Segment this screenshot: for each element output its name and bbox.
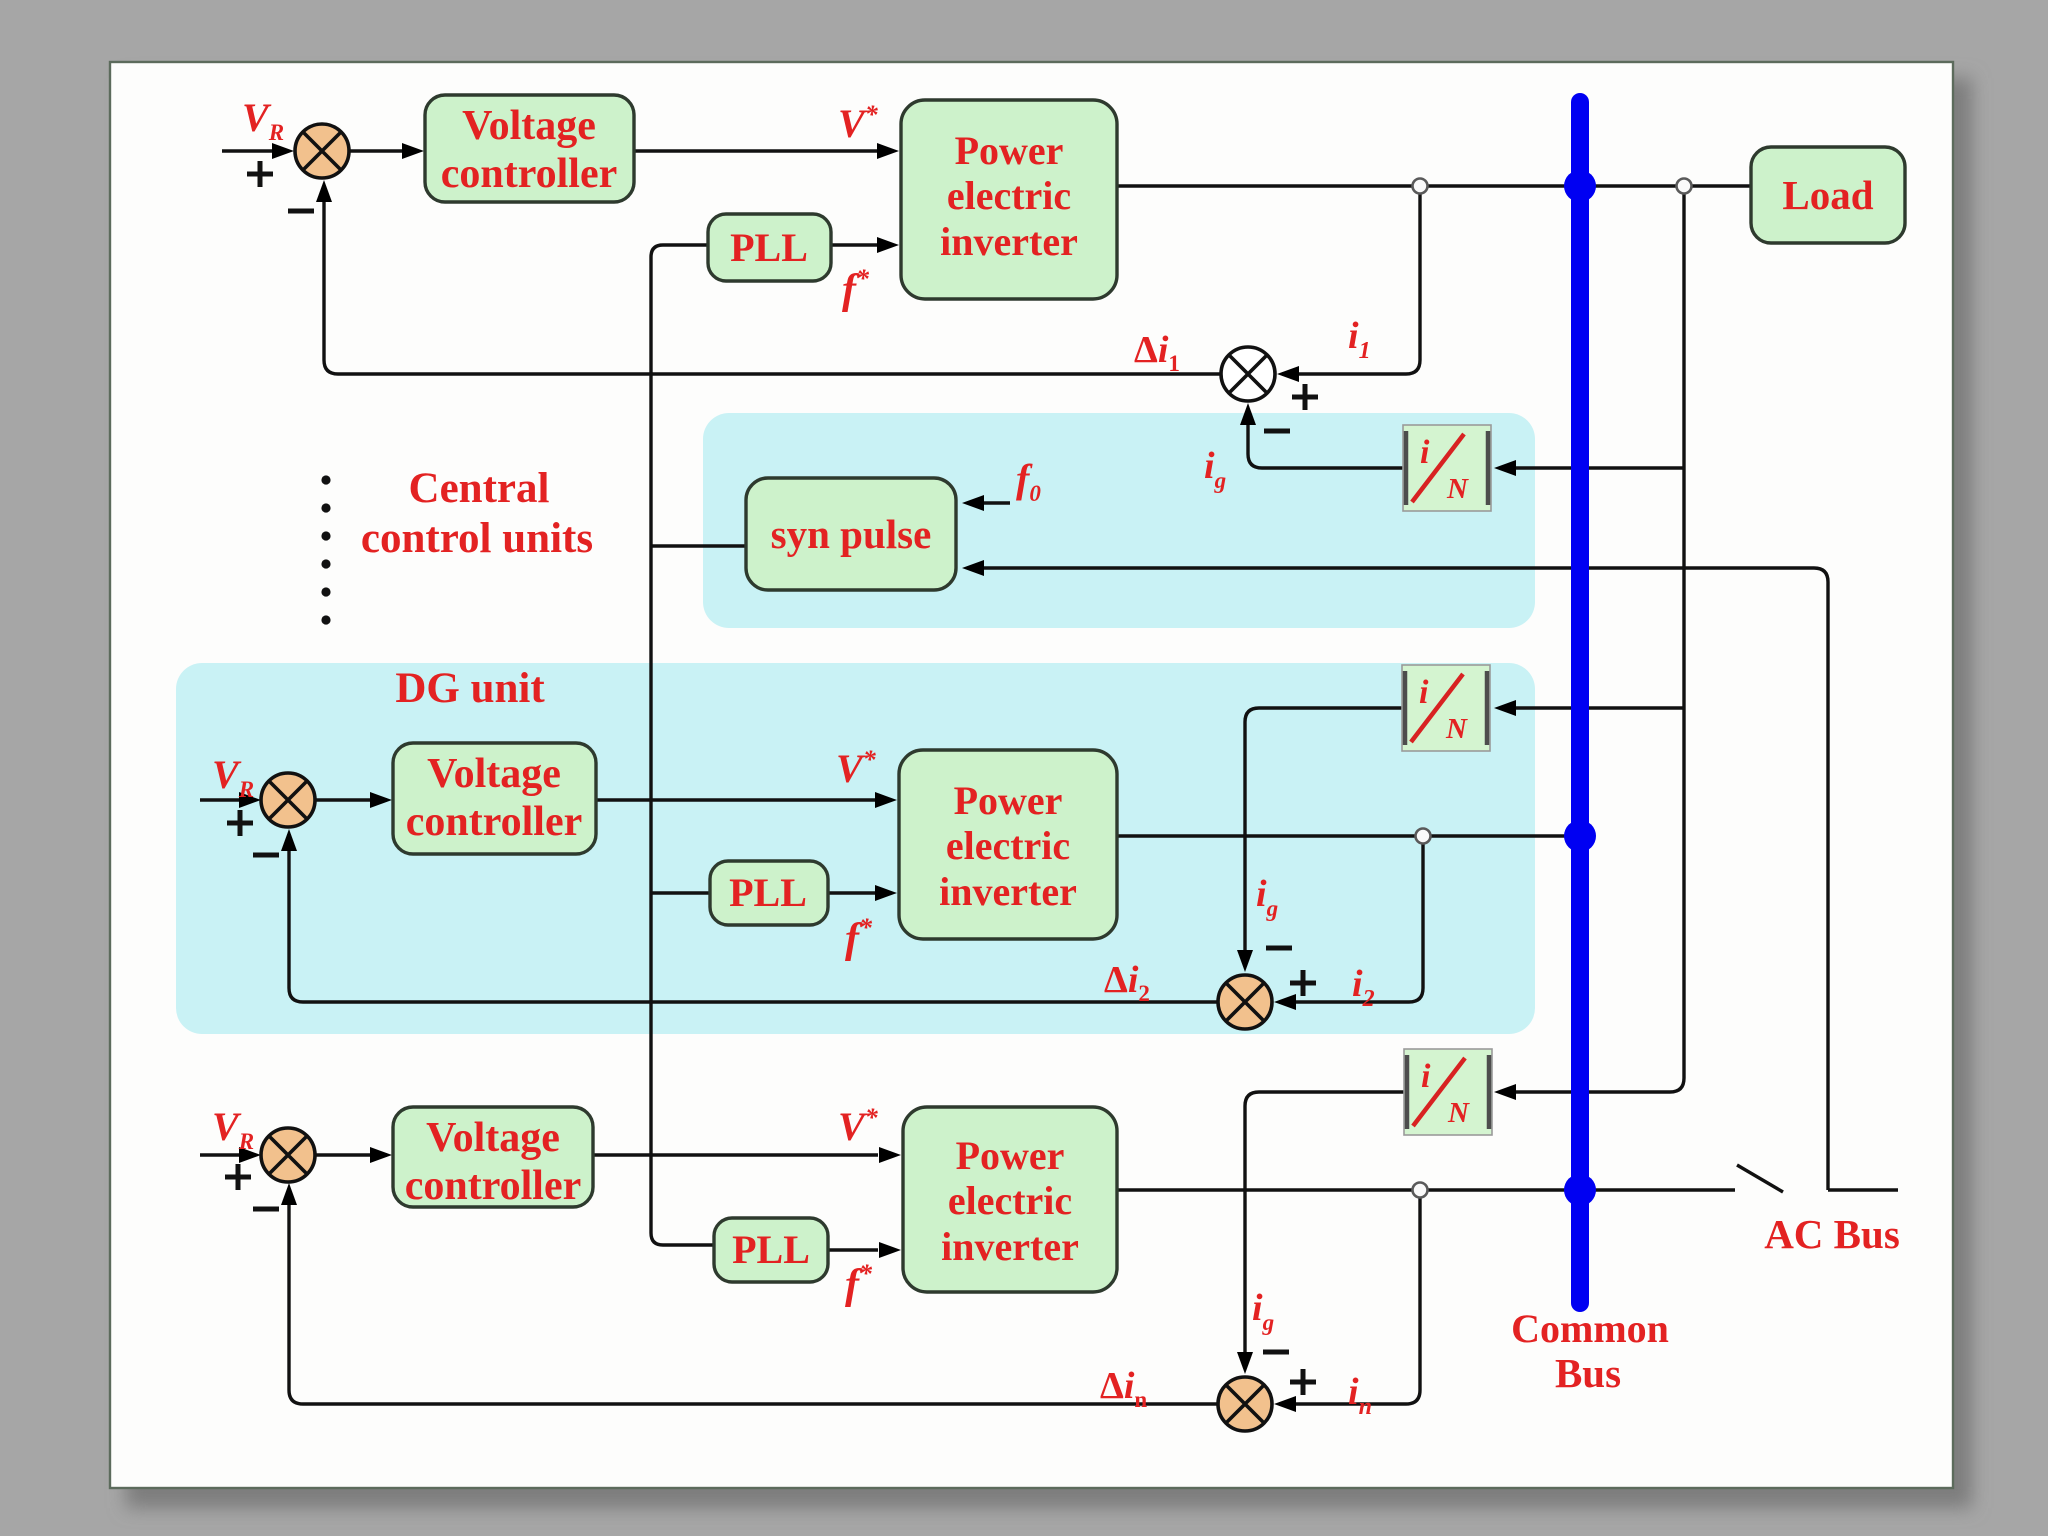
arrow feedback into S3 bottom bbox=[281, 1183, 297, 1205]
box Voltage controller 2 bbox=[393, 743, 596, 854]
wire S3 to voltage controller 3 bbox=[315, 1153, 387, 1156]
svg-text:Power: Power bbox=[956, 1133, 1065, 1178]
wire inverter1 output to Load bbox=[1117, 184, 1751, 187]
box Voltage controller 3 bbox=[393, 1107, 593, 1207]
plus at SB1 bbox=[1292, 384, 1318, 410]
wire branch to i/N1 input bbox=[1500, 466, 1684, 469]
wire SB2 output feedback to S2 (delta i2) bbox=[289, 834, 1218, 1002]
wire PLL1 to inverter1 bbox=[831, 243, 878, 246]
box Power electric inverter 2 bbox=[899, 750, 1117, 939]
wire SB1 output feedback to S1 (delta i1) bbox=[324, 186, 1221, 374]
svg-text:PLL: PLL bbox=[729, 870, 807, 915]
svg-text:PLL: PLL bbox=[730, 225, 808, 270]
box PLL 3 bbox=[714, 1218, 828, 1282]
arrow into S1 bbox=[272, 143, 294, 159]
wire S1 to voltage controller 1 bbox=[349, 149, 403, 152]
wire f0 into syn pulse bbox=[968, 501, 1010, 504]
minus at SB2 bbox=[1266, 946, 1292, 951]
wire controller3 to inverter3 V* bbox=[593, 1153, 878, 1156]
junction J3a bbox=[1413, 1183, 1428, 1198]
box Power electric inverter 1 bbox=[901, 100, 1117, 299]
wire controller1 to inverter1 V* bbox=[634, 149, 878, 152]
svg-text:Voltage: Voltage bbox=[462, 103, 596, 149]
arrow into controller2 bbox=[370, 792, 392, 808]
wire inverter3 output to switch bbox=[1117, 1188, 1735, 1191]
cyan highlight region: DG unit bbox=[176, 663, 1535, 1034]
arrow bus sense into syn pulse bbox=[962, 560, 984, 576]
minus at S1 bbox=[288, 209, 314, 214]
dotted ellipsis column bbox=[321, 475, 330, 624]
arrow PLL1 into inverter1 bbox=[877, 237, 899, 253]
bus node dot row1 bbox=[1564, 170, 1596, 202]
wire AC-bus sense up and into syn pulse bbox=[968, 568, 1828, 1190]
wire i/N3 output down to SB3 (ig) bbox=[1245, 1092, 1405, 1368]
arrow ig into SB2 top bbox=[1237, 950, 1253, 972]
summing junction S3 bbox=[261, 1128, 315, 1182]
arrow f0 into syn pulse bbox=[962, 495, 984, 511]
bus node dot row2 bbox=[1564, 820, 1596, 852]
summing junction S2 bbox=[261, 773, 315, 827]
wire VR input row3 bbox=[200, 1153, 255, 1156]
box PLL 1 bbox=[708, 214, 831, 281]
wire branch to i/N2 input bbox=[1500, 706, 1684, 709]
box Voltage controller 1 bbox=[425, 95, 634, 202]
summing junction S1 bbox=[295, 124, 349, 178]
minus at S2 bbox=[253, 853, 279, 858]
arrow into i/N3 bbox=[1494, 1084, 1516, 1100]
summing junction SB1 (white) bbox=[1221, 347, 1275, 401]
box i/N 2 bbox=[1402, 665, 1490, 751]
common bus (blue) bbox=[1571, 102, 1589, 1303]
wire i/N1 output to SB1 (ig) bbox=[1248, 409, 1403, 468]
svg-text:AC Bus: AC Bus bbox=[1764, 1211, 1900, 1257]
svg-text:inverter: inverter bbox=[941, 1224, 1079, 1269]
junction J1b bbox=[1677, 179, 1692, 194]
wire i/N2 output down to SB2 (ig) bbox=[1245, 708, 1402, 966]
arrow V* into inverter2 bbox=[875, 792, 897, 808]
wire inverter2 output to common bus bbox=[1117, 834, 1580, 837]
svg-text:syn pulse: syn pulse bbox=[771, 511, 932, 557]
minus at SB3 bbox=[1263, 1350, 1289, 1355]
plus at SB3 bbox=[1290, 1369, 1316, 1395]
arrow i1 into SB1 right bbox=[1277, 366, 1299, 382]
box i/N 1 bbox=[1403, 425, 1491, 511]
arrow V* into inverter1 bbox=[877, 143, 899, 159]
svg-text:Power: Power bbox=[955, 128, 1064, 173]
svg-text:PLL: PLL bbox=[732, 1227, 810, 1272]
plus at S1 bbox=[247, 161, 273, 187]
minus at SB1 bbox=[1264, 429, 1290, 434]
svg-text:controller: controller bbox=[441, 151, 618, 197]
wire VR input row1 bbox=[222, 149, 274, 152]
wire SB3 output feedback to S3 (delta in) bbox=[289, 1189, 1218, 1404]
box syn pulse bbox=[746, 478, 956, 590]
svg-text:control units: control units bbox=[361, 515, 593, 562]
svg-text:electric: electric bbox=[947, 173, 1071, 218]
wire trunk branch to PLL2 bbox=[651, 891, 710, 894]
arrow feedback into S2 bottom bbox=[281, 829, 297, 851]
plus at S2 bbox=[227, 810, 253, 836]
svg-text:Power: Power bbox=[954, 778, 1063, 823]
summing junction SB2 bbox=[1218, 975, 1272, 1029]
wire controller2 to inverter2 V* bbox=[596, 798, 876, 801]
switch blade (open) bbox=[1737, 1165, 1783, 1192]
svg-text:DG unit: DG unit bbox=[395, 665, 545, 712]
svg-text:electric: electric bbox=[946, 823, 1070, 868]
svg-text:inverter: inverter bbox=[939, 869, 1077, 914]
box PLL 2 bbox=[710, 861, 828, 925]
svg-text:Voltage: Voltage bbox=[426, 1115, 560, 1161]
svg-text:Load: Load bbox=[1782, 172, 1873, 218]
arrow feedback into S1 bottom bbox=[316, 180, 332, 202]
arrow into S3 bbox=[239, 1147, 261, 1163]
svg-text:inverter: inverter bbox=[940, 219, 1078, 264]
wire PLL2 to inverter2 bbox=[828, 891, 876, 894]
box i/N 3 bbox=[1404, 1049, 1492, 1135]
junction J1a bbox=[1413, 179, 1428, 194]
svg-text:controller: controller bbox=[405, 1163, 582, 1209]
summing junction SB3 bbox=[1218, 1377, 1272, 1431]
wire junction J3a down to SB3 (in) bbox=[1279, 1197, 1420, 1404]
plus at S3 bbox=[225, 1164, 251, 1190]
svg-text:electric: electric bbox=[948, 1178, 1072, 1223]
plus at SB2 bbox=[1290, 970, 1316, 996]
arrow ig into SB1 bottom bbox=[1240, 403, 1256, 425]
arrow PLL3 into inverter3 bbox=[879, 1242, 901, 1258]
wire S2 to voltage controller 2 bbox=[315, 798, 387, 801]
svg-text:Central: Central bbox=[409, 465, 550, 512]
minus at S3 bbox=[253, 1207, 279, 1212]
arrow into controller1 bbox=[402, 143, 424, 159]
wire VR input row2 bbox=[200, 798, 255, 801]
wire syn pulse output to trunk bbox=[651, 544, 746, 547]
svg-text:Bus: Bus bbox=[1555, 1350, 1621, 1396]
svg-text:controller: controller bbox=[406, 799, 583, 845]
arrow into i/N1 bbox=[1494, 460, 1516, 476]
box Power electric inverter 3 bbox=[903, 1107, 1117, 1292]
wire junction J1a down to summing SB1 (i1) bbox=[1282, 194, 1420, 374]
junction J2a bbox=[1416, 829, 1431, 844]
wire AC bus stub right of switch bbox=[1828, 1188, 1898, 1191]
arrow V* into inverter3 bbox=[879, 1147, 901, 1163]
wire PLL trunk with branches to PLL1 and PLL3 bbox=[651, 245, 714, 1245]
arrow i2 into SB2 right bbox=[1274, 994, 1296, 1010]
svg-text:Common: Common bbox=[1511, 1306, 1669, 1351]
wire PLL3 to inverter3 bbox=[828, 1248, 878, 1251]
arrow into controller3 bbox=[370, 1147, 392, 1163]
arrow PLL2 into inverter2 bbox=[875, 885, 897, 901]
arrow into i/N2 bbox=[1494, 700, 1516, 716]
arrow in into SB3 right bbox=[1274, 1396, 1296, 1412]
svg-text:Voltage: Voltage bbox=[427, 751, 561, 797]
arrow ig into SB3 top bbox=[1237, 1352, 1253, 1374]
box Load bbox=[1751, 147, 1905, 243]
wire junction J2a down to SB2 (i2) bbox=[1279, 843, 1423, 1002]
cyan highlight region: central control unit bbox=[703, 413, 1535, 628]
wire junction J1b down to i/N3 input bbox=[1500, 194, 1684, 1092]
bus node dot row3 bbox=[1564, 1174, 1596, 1206]
arrow into S2 bbox=[239, 792, 261, 808]
